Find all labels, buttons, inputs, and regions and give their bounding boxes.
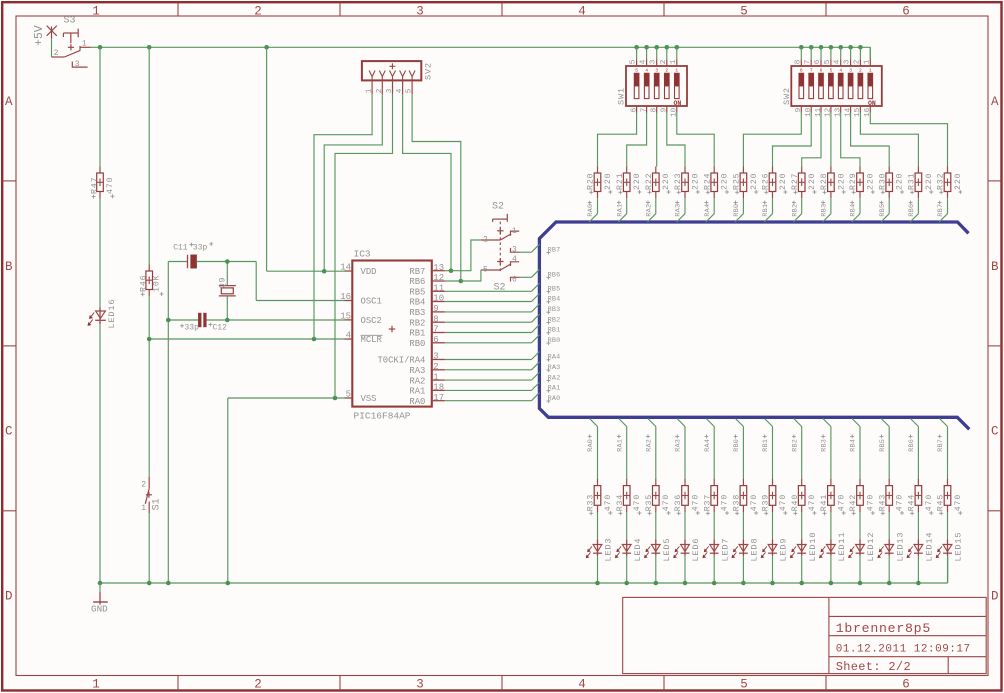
- svg-text:RB5: RB5: [548, 286, 561, 294]
- svg-text:RB6: RB6: [908, 439, 916, 452]
- svg-text:C12: C12: [213, 323, 228, 332]
- svg-text:7: 7: [640, 107, 648, 112]
- svg-text:R29: R29: [849, 173, 858, 190]
- svg-text:6: 6: [512, 276, 517, 285]
- svg-text:R28: R28: [820, 173, 829, 190]
- svg-text:RB1: RB1: [762, 439, 770, 452]
- svg-text:R33: R33: [587, 494, 596, 511]
- svg-text:220: 220: [837, 173, 846, 190]
- svg-text:220: 220: [896, 173, 905, 190]
- svg-text:RB1: RB1: [409, 329, 425, 339]
- svg-text:LED16: LED16: [107, 299, 117, 329]
- svg-text:5: 5: [635, 67, 638, 73]
- svg-text:5: 5: [740, 4, 748, 18]
- svg-text:470: 470: [662, 494, 671, 511]
- svg-text:6: 6: [814, 59, 822, 64]
- svg-text:470: 470: [808, 494, 817, 511]
- svg-text:ON: ON: [868, 100, 876, 107]
- svg-text:1: 1: [675, 67, 678, 73]
- svg-text:15: 15: [340, 311, 351, 321]
- svg-text:R44: R44: [908, 494, 917, 511]
- svg-text:1: 1: [82, 40, 87, 49]
- svg-text:RA3: RA3: [409, 366, 425, 376]
- svg-text:R35: R35: [645, 494, 654, 511]
- svg-text:R46: R46: [140, 275, 149, 292]
- svg-text:RA4: RA4: [704, 439, 712, 452]
- svg-text:4: 4: [640, 59, 648, 64]
- svg-text:RB7: RB7: [409, 267, 425, 277]
- svg-text:VDD: VDD: [361, 267, 377, 277]
- svg-text:470: 470: [954, 494, 963, 511]
- svg-text:Q9: Q9: [218, 277, 227, 289]
- svg-text:SV2: SV2: [424, 62, 434, 80]
- svg-text:2: 2: [660, 59, 668, 64]
- svg-text:3: 3: [416, 4, 424, 18]
- svg-text:6: 6: [630, 107, 638, 112]
- svg-text:2: 2: [859, 67, 862, 73]
- svg-text:LED10: LED10: [808, 532, 818, 562]
- svg-text:S2: S2: [492, 201, 504, 212]
- svg-text:T0CKI/RA4: T0CKI/RA4: [377, 356, 425, 366]
- svg-text:220: 220: [633, 173, 642, 190]
- svg-text:12: 12: [825, 107, 833, 117]
- svg-text:1: 1: [92, 677, 100, 691]
- svg-text:8: 8: [794, 59, 802, 64]
- svg-text:RA1: RA1: [409, 387, 425, 397]
- svg-text:220: 220: [750, 173, 759, 190]
- svg-text:11: 11: [815, 107, 823, 117]
- svg-text:5: 5: [346, 390, 351, 400]
- svg-text:RB1: RB1: [762, 204, 770, 217]
- svg-text:8: 8: [651, 107, 659, 112]
- svg-text:RA0: RA0: [587, 204, 595, 217]
- svg-text:LED5: LED5: [662, 538, 672, 562]
- svg-text:Sheet: 2/2: Sheet: 2/2: [836, 660, 911, 674]
- svg-text:3: 3: [655, 67, 658, 73]
- svg-text:15: 15: [854, 107, 862, 117]
- svg-text:LED7: LED7: [720, 538, 730, 562]
- svg-text:R27: R27: [791, 173, 800, 190]
- svg-text:220: 220: [866, 173, 875, 190]
- svg-text:6: 6: [902, 677, 910, 691]
- svg-text:220: 220: [662, 173, 671, 190]
- svg-text:RB3: RB3: [548, 306, 561, 314]
- svg-text:ON: ON: [674, 100, 682, 107]
- svg-text:3: 3: [512, 246, 517, 255]
- svg-text:RB6: RB6: [908, 204, 916, 217]
- svg-text:3: 3: [75, 60, 80, 69]
- svg-text:RB4: RB4: [850, 439, 858, 452]
- svg-text:RB6: RB6: [548, 272, 561, 280]
- svg-text:SW1: SW1: [617, 87, 627, 105]
- svg-text:RB5: RB5: [409, 288, 425, 298]
- svg-text:3: 3: [386, 88, 394, 93]
- svg-text:7: 7: [804, 59, 812, 64]
- svg-text:R25: R25: [733, 173, 742, 190]
- svg-text:33p: 33p: [193, 244, 208, 253]
- svg-text:+5V: +5V: [33, 25, 46, 46]
- svg-text:S2: S2: [494, 283, 506, 294]
- svg-text:1: 1: [670, 59, 678, 64]
- svg-text:3: 3: [844, 59, 852, 64]
- svg-text:470: 470: [750, 494, 759, 511]
- svg-text:5: 5: [406, 88, 414, 93]
- svg-text:1brenner8p5: 1brenner8p5: [836, 621, 931, 636]
- svg-text:3: 3: [433, 352, 438, 362]
- svg-text:1: 1: [141, 504, 146, 513]
- svg-text:3: 3: [849, 67, 852, 73]
- svg-text:RB0: RB0: [733, 204, 741, 217]
- svg-text:7: 7: [433, 325, 438, 335]
- svg-text:S1: S1: [152, 498, 163, 510]
- svg-text:3: 3: [650, 59, 658, 64]
- svg-text:6: 6: [820, 67, 823, 73]
- svg-text:6: 6: [902, 4, 910, 18]
- svg-text:220: 220: [954, 173, 963, 190]
- svg-text:MCLR: MCLR: [361, 335, 383, 345]
- svg-text:1: 1: [366, 88, 374, 93]
- svg-text:R43: R43: [878, 494, 887, 511]
- svg-text:16: 16: [340, 292, 351, 302]
- svg-text:S3: S3: [63, 16, 75, 27]
- svg-text:470: 470: [866, 494, 875, 511]
- svg-text:5: 5: [483, 266, 488, 275]
- svg-text:R34: R34: [616, 494, 625, 511]
- svg-text:2: 2: [665, 67, 668, 73]
- svg-text:1: 1: [433, 372, 438, 382]
- svg-text:220: 220: [925, 173, 934, 190]
- svg-text:5: 5: [830, 67, 833, 73]
- svg-text:R39: R39: [762, 494, 771, 511]
- svg-text:RB3: RB3: [821, 204, 829, 217]
- svg-text:R41: R41: [820, 494, 829, 511]
- svg-text:R21: R21: [616, 173, 625, 190]
- svg-text:RB2: RB2: [791, 204, 799, 217]
- svg-text:R45: R45: [937, 494, 946, 511]
- svg-text:2: 2: [433, 362, 438, 372]
- svg-text:470: 470: [925, 494, 934, 511]
- svg-text:RA4: RA4: [548, 354, 561, 362]
- svg-text:470: 470: [779, 494, 788, 511]
- svg-text:LED6: LED6: [691, 538, 701, 562]
- svg-text:470: 470: [721, 494, 730, 511]
- svg-text:RB7: RB7: [937, 439, 945, 452]
- svg-text:R38: R38: [733, 494, 742, 511]
- svg-text:1: 1: [512, 227, 517, 236]
- svg-text:B: B: [5, 260, 13, 274]
- svg-text:RA1: RA1: [616, 439, 624, 452]
- svg-text:RA3: RA3: [548, 364, 561, 372]
- svg-text:7: 7: [810, 67, 813, 73]
- svg-text:220: 220: [721, 173, 730, 190]
- svg-text:R40: R40: [791, 494, 800, 511]
- svg-text:RA0: RA0: [587, 439, 595, 452]
- svg-text:RB3: RB3: [821, 439, 829, 452]
- svg-text:9: 9: [795, 107, 803, 112]
- svg-text:33p: 33p: [185, 323, 200, 332]
- svg-text:SW2: SW2: [782, 87, 792, 105]
- svg-text:2: 2: [254, 4, 262, 18]
- svg-text:LED12: LED12: [866, 532, 876, 562]
- svg-text:OSC2: OSC2: [361, 316, 382, 326]
- svg-text:10: 10: [671, 107, 679, 117]
- svg-text:LED3: LED3: [604, 538, 614, 562]
- svg-text:RB0: RB0: [409, 339, 425, 349]
- svg-text:2: 2: [54, 49, 59, 58]
- svg-text:5: 5: [740, 677, 748, 691]
- svg-text:PIC16F84AP: PIC16F84AP: [354, 410, 411, 421]
- svg-text:R36: R36: [674, 494, 683, 511]
- svg-text:18: 18: [433, 383, 444, 393]
- svg-text:10K: 10K: [152, 275, 161, 292]
- svg-text:RB0: RB0: [548, 337, 561, 345]
- svg-text:RA0: RA0: [409, 397, 425, 407]
- svg-text:A: A: [991, 95, 999, 109]
- svg-text:RA3: RA3: [675, 204, 683, 217]
- svg-text:220: 220: [604, 173, 613, 190]
- svg-text:LED13: LED13: [895, 532, 905, 562]
- svg-text:RB2: RB2: [791, 439, 799, 452]
- svg-text:LED14: LED14: [925, 532, 935, 562]
- svg-text:C11: C11: [173, 244, 188, 253]
- svg-text:16: 16: [864, 107, 872, 117]
- svg-text:5: 5: [630, 59, 638, 64]
- svg-text:D: D: [991, 590, 999, 604]
- svg-text:RA2: RA2: [548, 374, 561, 382]
- svg-text:R32: R32: [937, 173, 946, 190]
- svg-text:10: 10: [805, 107, 813, 117]
- svg-text:RB1: RB1: [548, 327, 561, 335]
- svg-text:C: C: [991, 425, 999, 439]
- svg-text:RB4: RB4: [548, 296, 561, 304]
- svg-text:1: 1: [92, 4, 100, 18]
- svg-text:RA3: RA3: [675, 439, 683, 452]
- svg-text:LED11: LED11: [837, 532, 847, 562]
- svg-text:9: 9: [661, 107, 669, 112]
- svg-text:4: 4: [834, 59, 842, 64]
- svg-text:R42: R42: [849, 494, 858, 511]
- svg-text:9: 9: [433, 304, 438, 314]
- svg-text:R20: R20: [587, 173, 596, 190]
- svg-text:13: 13: [835, 107, 843, 117]
- svg-text:RB6: RB6: [409, 277, 425, 287]
- svg-text:2: 2: [376, 88, 384, 93]
- svg-text:2: 2: [483, 236, 488, 245]
- svg-text:2: 2: [254, 677, 262, 691]
- svg-text:12: 12: [433, 273, 444, 283]
- svg-text:8: 8: [433, 314, 438, 324]
- svg-text:470: 470: [106, 177, 115, 194]
- svg-text:R23: R23: [674, 173, 683, 190]
- svg-text:4: 4: [645, 67, 648, 73]
- svg-text:R26: R26: [762, 173, 771, 190]
- svg-text:14: 14: [340, 263, 351, 273]
- svg-text:220: 220: [691, 173, 700, 190]
- svg-text:10: 10: [433, 294, 444, 304]
- svg-text:RB4: RB4: [850, 204, 858, 217]
- svg-text:R37: R37: [703, 494, 712, 511]
- svg-text:R31: R31: [908, 173, 917, 190]
- svg-text:RB7: RB7: [548, 246, 561, 254]
- svg-text:470: 470: [604, 494, 613, 511]
- svg-text:4: 4: [346, 331, 351, 341]
- svg-text:IC3: IC3: [354, 248, 371, 259]
- svg-text:VSS: VSS: [361, 394, 377, 404]
- svg-text:RB0: RB0: [733, 439, 741, 452]
- svg-text:RB3: RB3: [409, 308, 425, 318]
- svg-text:RA2: RA2: [409, 376, 425, 386]
- svg-text:R30: R30: [878, 173, 887, 190]
- svg-text:B: B: [991, 260, 999, 274]
- svg-text:3: 3: [416, 677, 424, 691]
- svg-text:C: C: [5, 425, 13, 439]
- svg-text:470: 470: [896, 494, 905, 511]
- svg-text:OSC1: OSC1: [361, 297, 382, 307]
- svg-text:4: 4: [839, 67, 842, 73]
- svg-text:LED15: LED15: [954, 532, 964, 562]
- svg-text:RA2: RA2: [645, 439, 653, 452]
- svg-text:2: 2: [141, 481, 146, 490]
- svg-text:470: 470: [633, 494, 642, 511]
- svg-text:220: 220: [808, 173, 817, 190]
- svg-text:RA4: RA4: [704, 204, 712, 217]
- svg-text:220: 220: [779, 173, 788, 190]
- svg-text:RA2: RA2: [645, 204, 653, 217]
- svg-text:R24: R24: [703, 173, 712, 190]
- svg-text:1: 1: [863, 59, 871, 64]
- svg-text:2: 2: [853, 59, 861, 64]
- svg-text:RB7: RB7: [937, 204, 945, 217]
- svg-text:A: A: [5, 95, 13, 109]
- svg-text:14: 14: [844, 107, 852, 117]
- svg-text:01.12.2011 12:09:17: 01.12.2011 12:09:17: [836, 643, 971, 655]
- svg-text:RB2: RB2: [409, 318, 425, 328]
- svg-text:5: 5: [824, 59, 832, 64]
- svg-text:RA0: RA0: [548, 395, 561, 403]
- svg-text:R47: R47: [90, 177, 99, 194]
- svg-text:RB4: RB4: [409, 298, 425, 308]
- svg-text:LED9: LED9: [779, 538, 789, 562]
- svg-text:LED8: LED8: [750, 538, 760, 562]
- svg-text:470: 470: [837, 494, 846, 511]
- svg-text:6: 6: [433, 335, 438, 345]
- svg-text:RA1: RA1: [616, 204, 624, 217]
- svg-text:LED4: LED4: [633, 538, 643, 562]
- svg-text:4: 4: [578, 4, 586, 18]
- svg-text:RB5: RB5: [879, 439, 887, 452]
- svg-text:470: 470: [691, 494, 700, 511]
- svg-text:RB2: RB2: [548, 316, 561, 324]
- svg-text:1: 1: [869, 67, 872, 73]
- svg-text:4: 4: [512, 255, 517, 264]
- svg-text:17: 17: [433, 393, 444, 403]
- svg-text:4: 4: [578, 677, 586, 691]
- svg-text:GND: GND: [91, 604, 108, 615]
- svg-text:4: 4: [396, 88, 404, 93]
- svg-text:D: D: [5, 590, 13, 604]
- svg-text:R22: R22: [645, 173, 654, 190]
- svg-text:8: 8: [800, 67, 803, 73]
- svg-text:RA1: RA1: [548, 385, 561, 393]
- svg-text:11: 11: [433, 284, 444, 294]
- svg-text:13: 13: [433, 263, 444, 273]
- svg-text:RB5: RB5: [879, 204, 887, 217]
